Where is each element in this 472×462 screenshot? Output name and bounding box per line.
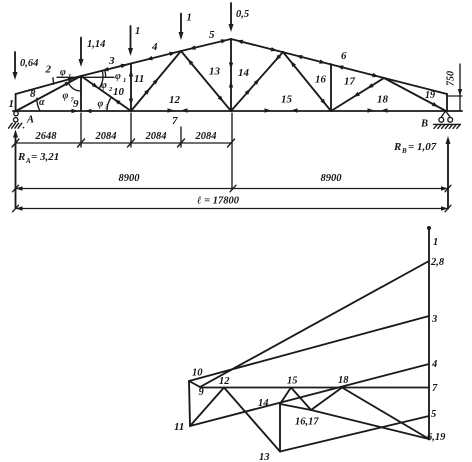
dim text 2084 b: [145, 131, 167, 142]
svg-text:13: 13: [259, 452, 270, 462]
cremona line to 3: [189, 316, 429, 381]
force arrows member 14: [229, 63, 233, 88]
cremona label 11: [174, 421, 184, 433]
svg-text:ℓ = 17800: ℓ = 17800: [197, 196, 240, 207]
svg-text:8900: 8900: [321, 173, 343, 184]
svg-text:1,14: 1,14: [87, 39, 105, 50]
svg-text:2648: 2648: [35, 131, 58, 142]
svg-text:2,8: 2,8: [430, 257, 445, 268]
member 1 (left end post): [9, 94, 16, 111]
cremona label 5: [431, 409, 436, 420]
force arrows member 5: [189, 39, 228, 50]
force arrows bottom chord mid 12: [168, 108, 188, 112]
cremona segment 12-13: [224, 388, 280, 452]
svg-text:3: 3: [431, 314, 437, 325]
svg-text:2084: 2084: [95, 131, 117, 142]
member 19 (diagonal T7-B): [384, 78, 446, 111]
cremona segment 11-12: [190, 388, 224, 427]
reaction RA label: [17, 151, 59, 165]
right end post: [446, 94, 448, 111]
force arrows member 6: [236, 40, 379, 77]
member 8 (diagonal A-T1): [16, 76, 81, 111]
cremona label 4: [431, 359, 437, 370]
force arrows member 11: [129, 70, 133, 105]
load F2 = 1,14 at node T1: [79, 38, 106, 68]
cremona label 1: [433, 237, 438, 248]
force arrows bottom chord at node under 9: [72, 109, 92, 113]
angle alpha at A: [37, 97, 45, 111]
dimension extension at x=181: [180, 127, 182, 147]
dimension 750 at right end: [446, 64, 463, 110]
force arrows member 2: [68, 77, 75, 81]
angle phi7: [63, 84, 82, 104]
force arrows member 4: [146, 52, 176, 61]
member 6 (top chord right): [231, 39, 447, 94]
bottom chord label 18: [377, 94, 389, 106]
angle phi3: [98, 97, 112, 111]
svg-text:В: В: [420, 119, 428, 130]
svg-text:13: 13: [209, 66, 221, 78]
svg-text:2084: 2084: [145, 131, 167, 142]
dimension extension under vertical 11: [130, 113, 132, 147]
force arrows member 19: [432, 102, 439, 107]
svg-text:7: 7: [432, 383, 438, 394]
svg-text:9: 9: [199, 387, 205, 398]
cremona segment 14-15: [280, 388, 291, 405]
svg-text:1: 1: [433, 237, 438, 248]
angle phi1 right: [105, 71, 126, 84]
svg-text:2: 2: [45, 64, 52, 76]
cremona segment 10-9: [189, 381, 200, 387]
svg-text:1: 1: [123, 77, 126, 84]
svg-text:φ: φ: [63, 91, 69, 102]
dim text l=17800: [197, 196, 240, 207]
member 9 (vertical): [73, 76, 81, 111]
support B roller: [420, 111, 461, 130]
bottom chord label 15: [281, 94, 293, 106]
svg-text:0,5: 0,5: [236, 9, 249, 20]
bottom chord label 12: [169, 94, 181, 106]
svg-text:15: 15: [281, 94, 293, 106]
vertical at N3: [330, 64, 332, 111]
svg-text:19: 19: [425, 90, 435, 101]
cremona segment 16,17-6,19: [311, 410, 429, 439]
svg-text:φ: φ: [115, 71, 121, 82]
load F4 = 1 at node T3: [179, 13, 192, 41]
force arrows member 3: [102, 64, 128, 72]
svg-text:4: 4: [431, 359, 437, 370]
load F3 = 1 at node T2: [128, 26, 140, 56]
svg-text:5: 5: [209, 29, 215, 41]
cremona label 9: [199, 387, 205, 398]
cremona label 18: [338, 375, 349, 386]
load F1 = 0,64 at left end: [13, 52, 39, 80]
svg-text:10: 10: [113, 86, 125, 98]
svg-text:18: 18: [377, 94, 389, 106]
force arrows diagonal N2-T5: [245, 55, 281, 95]
svg-text:8: 8: [30, 88, 36, 100]
angle phi2: [100, 72, 114, 94]
member 10 (diagonal T1-N1): [81, 76, 131, 111]
force arrows member 8: [65, 81, 72, 86]
svg-text:16: 16: [315, 74, 327, 86]
cremona label 14: [258, 398, 269, 409]
cremona segment 13-5: [280, 416, 429, 452]
cremona label 16,17: [295, 417, 319, 428]
dim text 8900 left: [119, 173, 141, 184]
force arrows member 13: [188, 59, 224, 102]
member 16 area diagonal T5-N3: [283, 52, 331, 111]
dimension extension under N2: [231, 113, 233, 190]
svg-text:B: B: [401, 147, 407, 155]
cremona label 7: [432, 383, 438, 394]
svg-text:14: 14: [238, 67, 250, 79]
svg-text:8900: 8900: [119, 173, 141, 184]
svg-text:= 3,21: = 3,21: [31, 151, 59, 163]
svg-text:7: 7: [172, 115, 178, 127]
cremona segment 15-16,17: [291, 388, 311, 411]
dim text 8900 right: [321, 173, 343, 184]
svg-text:= 1,07: = 1,07: [408, 141, 437, 153]
dim text 2084 c: [195, 131, 217, 142]
diagonal 12 (N1-T3): [131, 51, 181, 111]
svg-text:1: 1: [187, 13, 192, 24]
svg-text:18: 18: [338, 375, 349, 386]
dimension line l=17800: [13, 205, 452, 212]
reaction RB arrow: [446, 136, 451, 209]
member 3 (top chord): [81, 55, 131, 76]
cremona segment 14-13: [279, 404, 281, 452]
cremona label 13: [259, 452, 270, 462]
load F5 = 0,5 at apex: [229, 3, 250, 32]
svg-text:750: 750: [446, 71, 457, 86]
cremona label 6,19: [427, 432, 446, 443]
member 4 (top chord): [131, 41, 181, 64]
cremona segment 18-16,17: [311, 388, 342, 411]
cremona segment 10-11: [189, 381, 190, 426]
cremona segment 18-6,19: [342, 388, 429, 440]
dim text 2084 a: [95, 131, 117, 142]
cremona label 15: [287, 376, 298, 387]
svg-text:11: 11: [134, 73, 144, 85]
svg-text:φ: φ: [60, 67, 66, 78]
cremona line to 2,8: [200, 261, 429, 387]
svg-text:φ: φ: [98, 99, 104, 110]
cremona label 2,8: [430, 257, 445, 268]
svg-text:12: 12: [219, 376, 230, 387]
svg-text:11: 11: [174, 421, 184, 433]
svg-text:1: 1: [9, 98, 15, 110]
reaction RB label: [393, 141, 437, 155]
force arrows member 17: [353, 83, 373, 97]
svg-text:4: 4: [151, 41, 158, 53]
svg-text:17: 17: [344, 76, 356, 88]
svg-text:α: α: [39, 97, 45, 108]
svg-text:5: 5: [431, 409, 436, 420]
cremona label 12: [219, 376, 230, 387]
dim text 2648: [35, 131, 58, 142]
svg-text:15: 15: [287, 376, 298, 387]
svg-text:1: 1: [135, 26, 140, 37]
member 5 (top chord): [181, 29, 231, 51]
cremona label 3: [431, 314, 437, 325]
svg-text:R: R: [393, 141, 401, 153]
force arrows diagonal T5-N3: [290, 61, 326, 105]
diagonal N2-T5: [231, 52, 283, 111]
member 14 (vertical apex-N2): [231, 39, 250, 111]
member 13 (diagonal T3-N2): [181, 51, 231, 111]
reaction RA arrow: [13, 130, 18, 209]
force arrows bottom chord mid 18: [368, 108, 388, 112]
cremona horizontal line 12-15-18-7: [200, 387, 429, 389]
cremona label 10: [192, 368, 203, 379]
svg-text:14: 14: [258, 398, 269, 409]
cremona line 11-14-18-4: [190, 364, 429, 426]
bottom chord: [13, 110, 462, 112]
force arrows bottom chord mid 15: [265, 108, 298, 112]
support A pendulum link: [9, 111, 35, 128]
member 17 (diagonal N3-T7): [331, 76, 384, 112]
member 2 (top chord): [16, 64, 81, 95]
dimension extension under vertical 9: [80, 113, 82, 147]
cremona vertical load line: [427, 226, 431, 440]
svg-text:16,17: 16,17: [295, 417, 319, 428]
bottom chord label 7: [172, 115, 178, 127]
svg-text:6,19: 6,19: [427, 432, 446, 443]
force arrows diagonal 12: [144, 78, 158, 95]
svg-text:10: 10: [192, 368, 203, 379]
svg-text:A: A: [26, 115, 34, 126]
svg-text:6: 6: [341, 50, 347, 62]
cremona segment 14-16,17: [280, 404, 311, 410]
member 11 (vertical): [131, 64, 144, 112]
horizontal reference line through T1: [57, 76, 114, 78]
dimension line 2648/2084 row: [12, 139, 235, 147]
svg-text:3: 3: [108, 55, 115, 67]
angle phi1 left: [53, 67, 71, 84]
dimension line 8900+8900: [13, 185, 452, 192]
svg-text:12: 12: [169, 94, 181, 106]
force arrows member 10: [92, 83, 121, 105]
svg-text:R: R: [17, 151, 25, 163]
svg-text:0,64: 0,64: [20, 58, 38, 69]
svg-text:9: 9: [73, 98, 79, 110]
svg-text:2084: 2084: [195, 131, 217, 142]
